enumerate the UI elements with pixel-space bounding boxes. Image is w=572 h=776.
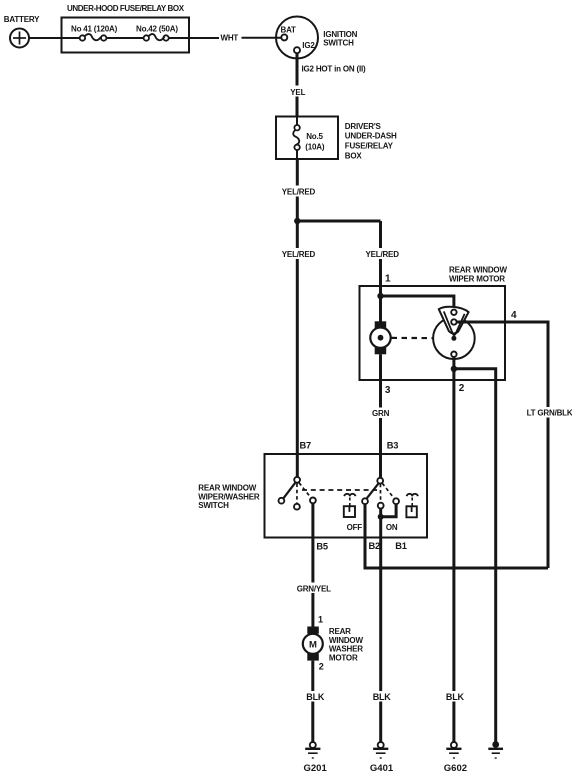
svg-text:2: 2 xyxy=(319,662,324,672)
svg-text:REAR WINDOW: REAR WINDOW xyxy=(198,484,256,493)
right switch pole B3 xyxy=(362,478,399,509)
svg-text:MOTOR: MOTOR xyxy=(329,653,358,662)
svg-text:M: M xyxy=(309,640,317,651)
wire fuse41 to fuse42 xyxy=(106,37,143,39)
ground (solid) far right xyxy=(488,741,503,758)
battery B1 xyxy=(4,15,40,48)
wire washer motor to G201, BLK xyxy=(305,661,325,742)
svg-text:UNDER-HOOD FUSE/RELAY BOX: UNDER-HOOD FUSE/RELAY BOX xyxy=(67,4,185,13)
wire under-dash box down, YEL/RED xyxy=(281,159,316,221)
fuse No.42 (50A) xyxy=(136,25,178,41)
junction node xyxy=(294,218,300,224)
wire fuse box to ignition switch, WHT xyxy=(169,34,282,43)
svg-text:OFF: OFF xyxy=(347,523,363,532)
svg-text:YEL: YEL xyxy=(290,88,305,97)
ignition switch SW1 xyxy=(276,17,358,59)
node pin1 branch xyxy=(377,293,383,299)
svg-text:BAT: BAT xyxy=(281,26,297,35)
wire park switch bottom node xyxy=(452,357,455,369)
wire junction horizontal branch xyxy=(297,220,380,223)
wire pin 3 to switch B3, GRN xyxy=(371,354,399,478)
rear window wiper motor box xyxy=(360,266,508,380)
svg-text:G401: G401 xyxy=(370,763,394,774)
svg-text:SWITCH: SWITCH xyxy=(323,38,354,47)
BLK label G401 wire xyxy=(371,691,391,702)
svg-text:GRN: GRN xyxy=(372,409,390,418)
svg-text:BATTERY: BATTERY xyxy=(4,15,40,24)
washer motor M2 xyxy=(303,614,364,671)
svg-text:YEL/RED: YEL/RED xyxy=(366,250,400,259)
wire right branch to wiper motor pin 1, YEL/RED xyxy=(364,221,399,296)
svg-text:LT GRN/BLK: LT GRN/BLK xyxy=(527,409,572,418)
svg-text:3: 3 xyxy=(385,385,391,396)
svg-text:WINDOW: WINDOW xyxy=(329,636,364,645)
svg-text:ON: ON xyxy=(386,523,398,532)
svg-text:REAR WINDOW: REAR WINDOW xyxy=(449,266,507,275)
svg-text:REAR: REAR xyxy=(329,627,351,636)
svg-text:No.42 (50A): No.42 (50A) xyxy=(136,25,178,34)
svg-text:4: 4 xyxy=(511,310,517,321)
svg-text:GRN/YEL: GRN/YEL xyxy=(297,584,331,593)
svg-text:WIPER/WASHER: WIPER/WASHER xyxy=(198,492,260,501)
svg-text:B5: B5 xyxy=(316,541,328,551)
svg-text:No.5: No.5 xyxy=(306,132,323,141)
svg-text:WASHER: WASHER xyxy=(329,645,363,654)
svg-text:(10A): (10A) xyxy=(305,142,325,151)
svg-text:IG2: IG2 xyxy=(302,41,315,50)
wire IG2 to under-dash fuse box, YEL xyxy=(288,53,308,116)
wire pin 4, LT GRN/BLK xyxy=(457,310,572,568)
wire ON contact loop xyxy=(378,504,396,520)
OFF detent and washer icon xyxy=(344,494,363,532)
wire link B2 to pin4 drop xyxy=(365,567,548,569)
svg-text:BLK: BLK xyxy=(373,692,392,702)
park switch (wiper cam) xyxy=(433,307,475,359)
svg-text:B7: B7 xyxy=(300,440,312,450)
svg-text:2: 2 xyxy=(459,383,465,394)
svg-text:B3: B3 xyxy=(387,440,399,450)
svg-text:No 41 (120A): No 41 (120A) xyxy=(71,25,118,34)
svg-text:BLK: BLK xyxy=(446,692,465,702)
svg-text:1: 1 xyxy=(385,273,391,284)
svg-text:YEL/RED: YEL/RED xyxy=(282,250,316,259)
svg-text:UNDER-DASH: UNDER-DASH xyxy=(345,132,397,141)
svg-text:BLK: BLK xyxy=(306,692,325,702)
svg-text:DRIVER'S: DRIVER'S xyxy=(345,122,382,131)
ground G401 xyxy=(370,742,394,774)
svg-text:G201: G201 xyxy=(304,763,328,774)
dashed gang link xyxy=(302,489,377,491)
BLK label G602 wire xyxy=(445,691,465,702)
svg-text:WHT: WHT xyxy=(221,34,239,43)
wire pin 2 to G602 xyxy=(454,369,465,742)
dashed mechanical link xyxy=(392,337,451,340)
ground G201 xyxy=(304,742,328,774)
svg-text:WIPER MOTOR: WIPER MOTOR xyxy=(449,275,505,284)
wire B1 to G401 xyxy=(381,517,407,742)
ON detent and washer icon xyxy=(386,494,418,532)
svg-text:SWITCH: SWITCH xyxy=(198,501,229,510)
svg-text:B1: B1 xyxy=(395,541,407,551)
svg-text:B2: B2 xyxy=(369,541,381,551)
left switch pole B7 xyxy=(279,477,316,510)
svg-text:IG2 HOT in ON (II): IG2 HOT in ON (II) xyxy=(302,64,366,73)
svg-text:BOX: BOX xyxy=(345,151,363,160)
fuse No.5 (10A) xyxy=(293,117,325,160)
svg-text:FUSE/RELAY: FUSE/RELAY xyxy=(345,142,394,151)
wire branch to right ground drop xyxy=(454,369,496,742)
wire battery to under-hood fuse box xyxy=(29,37,62,39)
wire pin1 to park switch xyxy=(381,296,454,310)
motor M (wiper) xyxy=(370,296,390,354)
under-hood fuse/relay box xyxy=(62,4,190,53)
svg-text:G602: G602 xyxy=(444,763,467,774)
wire left branch to switch B7, YEL/RED xyxy=(281,221,316,477)
svg-text:YEL/RED: YEL/RED xyxy=(282,188,316,197)
driver's under-dash fuse/relay box xyxy=(276,117,397,161)
ground G602 xyxy=(444,742,467,774)
wire B2 to LT GRN/BLK link xyxy=(365,504,380,568)
rear window wiper/washer switch box xyxy=(198,454,427,538)
svg-text:1: 1 xyxy=(318,614,323,624)
fuse No.41 (120A) xyxy=(62,25,118,41)
wire B5 to washer motor, GRN/YEL xyxy=(295,503,334,626)
